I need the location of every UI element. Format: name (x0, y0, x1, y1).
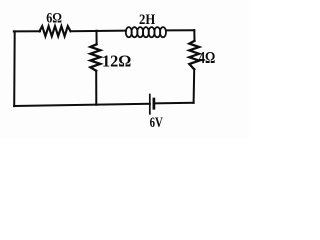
svg-text:6V: 6V (150, 115, 164, 131)
svg-text:4Ω: 4Ω (199, 48, 216, 67)
svg-text:6Ω: 6Ω (46, 11, 62, 27)
svg-text:2H: 2H (139, 12, 156, 28)
svg-text:12Ω: 12Ω (102, 51, 131, 70)
